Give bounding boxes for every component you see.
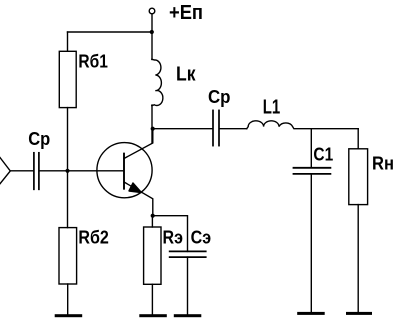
svg-text:+Еп: +Еп bbox=[169, 2, 203, 24]
transistor emitter arrow bbox=[129, 183, 141, 192]
wire Re bottom bbox=[151, 284, 153, 314]
ground Re bbox=[139, 314, 167, 317]
wire Cp out to L1 bbox=[220, 128, 247, 130]
node emitter junction bbox=[151, 214, 155, 218]
wire Lk bottom bbox=[151, 105, 153, 143]
capacitor Cp output bbox=[213, 110, 219, 145]
input terminal chevron bbox=[0, 158, 10, 184]
node collector junction bbox=[151, 127, 155, 131]
svg-text:Lк: Lк bbox=[176, 64, 196, 86]
wire Rb2 bottom bbox=[67, 284, 69, 315]
svg-text:Rб2: Rб2 bbox=[78, 228, 109, 248]
resistor Rn bbox=[349, 149, 368, 205]
wire Rb1 top bbox=[67, 32, 69, 51]
resistor Rb1 bbox=[59, 51, 76, 107]
ground Ce bbox=[174, 314, 202, 317]
capacitor Cp input bbox=[34, 153, 39, 190]
svg-text:Сэ: Сэ bbox=[191, 228, 212, 248]
svg-text:Rб1: Rб1 bbox=[78, 52, 108, 72]
node supply junction bbox=[150, 30, 154, 34]
wire Rn top bbox=[357, 129, 359, 149]
wire Rn bottom bbox=[357, 205, 359, 313]
wire supply horizontal bbox=[68, 31, 153, 33]
ground C1 bbox=[297, 312, 325, 315]
transistor collector bbox=[124, 129, 153, 159]
wire L1 to Rn corner bbox=[295, 128, 358, 130]
capacitor Ce bbox=[170, 251, 206, 257]
transistor base bar bbox=[123, 154, 125, 189]
inductor L1 bbox=[247, 121, 294, 129]
svg-text:C1: C1 bbox=[313, 144, 333, 164]
wire Rb1 to Rb2 bbox=[67, 108, 69, 228]
inductor Lk bbox=[152, 59, 163, 105]
wire input bbox=[10, 170, 33, 172]
terminal +Ep bbox=[149, 8, 155, 14]
svg-text:L1: L1 bbox=[263, 96, 281, 118]
wire C1 top bbox=[310, 129, 312, 168]
transistor emitter bbox=[124, 182, 153, 216]
transistor VT circle bbox=[97, 143, 152, 198]
svg-text:Rн: Rн bbox=[372, 154, 394, 174]
svg-text:Rэ: Rэ bbox=[163, 228, 184, 248]
resistor Re bbox=[144, 227, 161, 284]
wire C1 bottom bbox=[310, 174, 312, 312]
wire Ce bottom bbox=[187, 257, 189, 314]
wire collector to Cp out bbox=[153, 128, 213, 130]
ground Rb2 bbox=[55, 314, 82, 317]
capacitor C1 bbox=[294, 168, 331, 174]
ground Rn bbox=[346, 312, 372, 315]
wire emitter to Re bbox=[151, 216, 153, 227]
wire emitter junction to Ce bbox=[153, 216, 188, 252]
wire supply vertical bbox=[151, 14, 153, 60]
node base divider junction bbox=[65, 169, 69, 173]
svg-text:Ср: Ср bbox=[28, 129, 50, 149]
svg-text:Ср: Ср bbox=[208, 87, 231, 107]
wire cap to base bbox=[40, 170, 124, 172]
resistor Rb2 bbox=[59, 228, 77, 284]
